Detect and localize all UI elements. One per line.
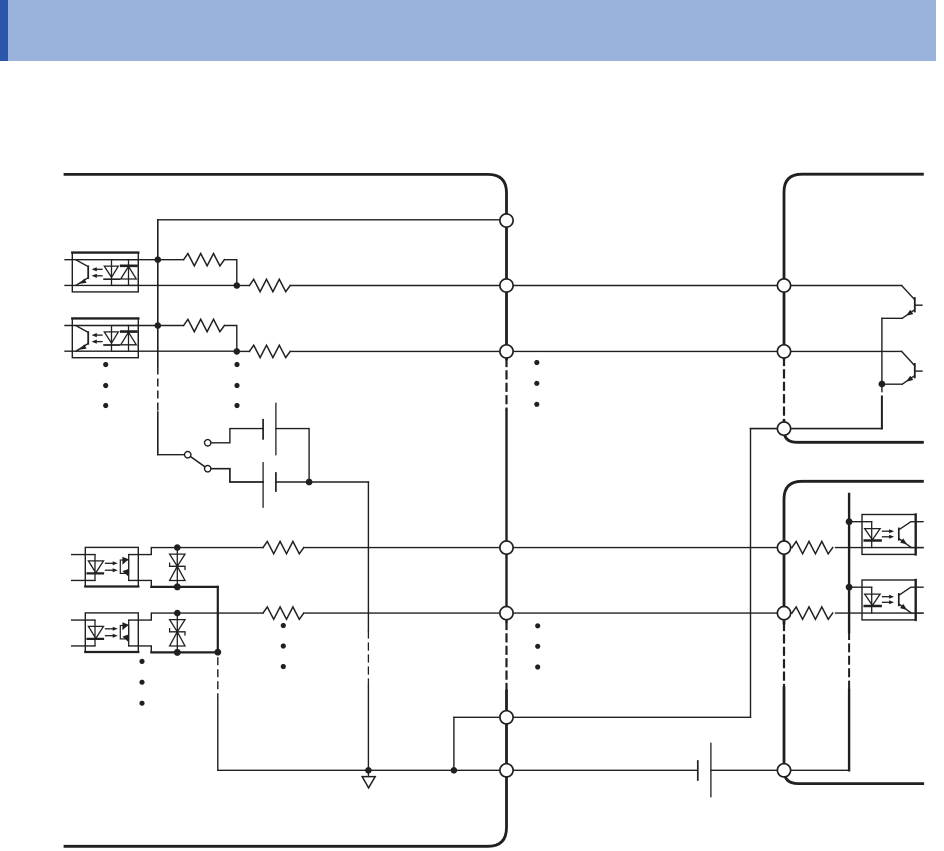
wire battery 1 to junction (276, 429, 309, 482)
wire to sensor common terminal (751, 428, 882, 430)
terminal ground (500, 764, 513, 777)
wire upper throw to battery 1 (211, 429, 263, 443)
ellipsis column C (534, 360, 539, 407)
header accent strip (0, 0, 8, 61)
wire right box common (790, 769, 849, 771)
optocoupler input 1 (65, 253, 237, 292)
PLC module outline bottom (65, 691, 507, 846)
top-right box bottom outline (784, 421, 922, 442)
junction battery outputs (306, 479, 313, 486)
PLC module outline (left, rounded) (65, 174, 507, 359)
optocoupler input 2 (65, 318, 237, 357)
switch throw contact lower (205, 466, 211, 472)
junction resistor chain 1 (234, 282, 241, 289)
surge suppressor zener 1 (170, 544, 185, 590)
functional earth symbol (367, 770, 369, 776)
wire COM terminal row (158, 219, 507, 221)
ground rail (218, 769, 698, 771)
wire right riser to service power out (750, 429, 752, 718)
junction bus-opto1 (155, 256, 162, 263)
DC input optocoupler right 2 (849, 580, 923, 620)
transistor sensor output 1 (882, 286, 922, 319)
optocoupler output 2 (72, 613, 218, 653)
ellipsis column D (139, 659, 144, 706)
junction resistor chain 2 (234, 348, 241, 355)
battery B1 short plate (262, 420, 264, 439)
right box internal common dashed (848, 632, 850, 690)
transistor sensor output 2 (882, 351, 922, 384)
terminal output 2 (500, 607, 513, 620)
bottom-right box bottom outline (784, 688, 923, 784)
junction right opto 1 (846, 518, 853, 525)
resistor input 1b (237, 285, 250, 287)
wire battery 3 to right box terminal (711, 769, 791, 771)
junction ground-downline (365, 767, 372, 774)
battery B3 short plate (697, 761, 699, 780)
junction right opto 2 (846, 584, 853, 591)
optocoupler output 1 (72, 547, 218, 587)
switch common contact (185, 452, 191, 458)
wire bus to selector switch (158, 454, 185, 456)
battery B2 long plate (262, 463, 264, 508)
resistor input 2b (237, 350, 250, 352)
junction bus-opto2 (155, 322, 162, 329)
common down-line dashed segment (367, 631, 369, 686)
terminal input 1 (500, 279, 513, 292)
wire output 1 row with resistors (177, 547, 263, 549)
top-right box edge dashed segment (783, 358, 785, 421)
input bus dashed segment (157, 367, 159, 412)
junction ground-riser (451, 767, 458, 774)
battery B1 long plate (275, 403, 277, 454)
battery B3 long plate (710, 743, 712, 796)
terminal output 1 (500, 541, 513, 554)
terminal sensor 1 (777, 279, 790, 292)
riser wire to 24V terminal (453, 717, 455, 770)
sensor common vertical (881, 318, 883, 391)
resistor input 1a (158, 259, 184, 261)
wire resistor 1a elbow (224, 260, 236, 286)
wire resistor 2a elbow (224, 326, 236, 352)
common down-line vertical (367, 482, 369, 631)
terminal COM input (500, 214, 513, 227)
PLC module edge dashed segment 2 (505, 622, 507, 691)
input bus lower vertical (157, 412, 159, 455)
switch blade (191, 457, 205, 467)
junction sensor emitters (879, 381, 886, 388)
right box internal common vertical (848, 494, 850, 632)
switch throw contact upper (205, 440, 211, 446)
battery B2 short plate (275, 473, 277, 491)
ellipsis column E (281, 623, 286, 669)
output common dashed segment (217, 658, 219, 697)
wire lower throw to battery 2 (211, 469, 263, 482)
terminal load common (777, 764, 790, 777)
terminal load 1 (777, 541, 790, 554)
surge suppressor zener 2 (170, 610, 185, 656)
DC input optocoupler right 1 (849, 515, 923, 555)
output common lower vertical (217, 697, 219, 770)
wire input 1 to terminal and transistor (290, 285, 901, 287)
common down-line lower vertical (367, 686, 369, 770)
junction output common row 2 (214, 649, 221, 656)
terminal input 2 (500, 345, 513, 358)
terminal sensor 2 (777, 345, 790, 358)
ellipsis column A (103, 362, 108, 408)
PLC module edge solid segment (505, 410, 507, 622)
wire input 2 to terminal and transistor (290, 350, 901, 352)
wire battery 2 to common down-line (276, 481, 369, 483)
external device box top-right outline (784, 174, 922, 358)
bottom-right box edge dashed segment (783, 623, 785, 688)
terminal sensor common (777, 422, 790, 435)
input common bus vertical (157, 220, 159, 367)
ellipsis column B (234, 362, 239, 408)
header bar (0, 0, 936, 61)
ellipsis column F (535, 623, 540, 669)
right box internal common lower (848, 690, 850, 770)
terminal service supply (500, 711, 513, 724)
sensor common vertical lower (881, 397, 883, 429)
wire output 2 row with resistors (177, 612, 263, 614)
external device box bottom-right outline (784, 481, 922, 623)
terminal circles PLC side (500, 214, 791, 777)
wire 24V terminal row (454, 716, 751, 718)
PLC module edge dashed segment 1 (505, 359, 507, 410)
terminal load 2 (777, 607, 790, 620)
output common vertical (217, 587, 219, 653)
resistor input 2a (158, 325, 184, 327)
